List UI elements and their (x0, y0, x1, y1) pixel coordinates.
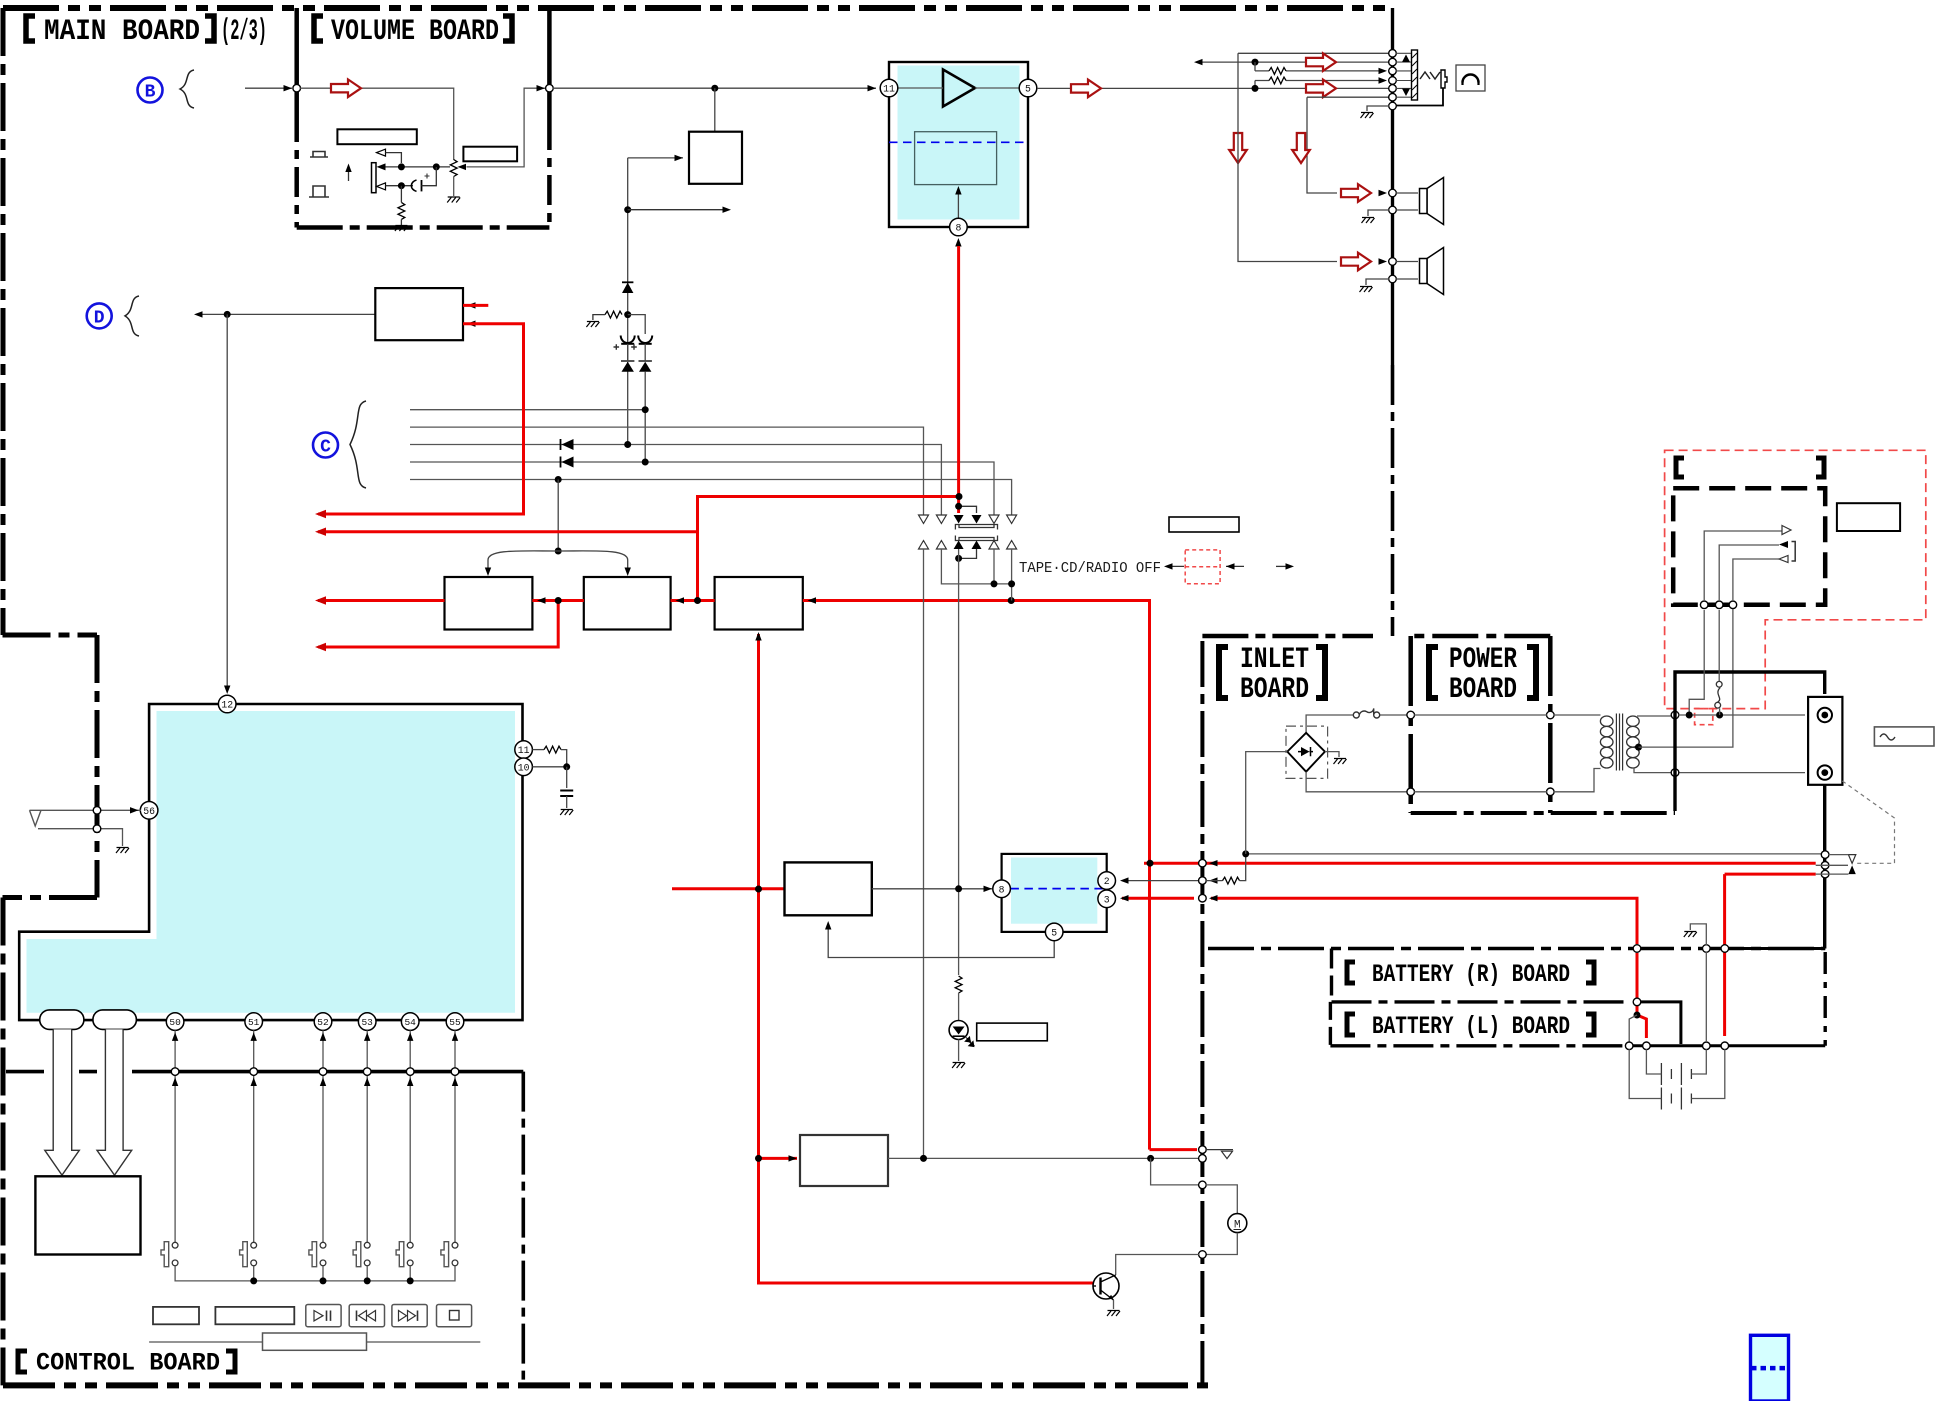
border circles for power wires (1199, 859, 1207, 867)
fuse F1 (1353, 708, 1379, 718)
inlet board top border (1202, 634, 1373, 639)
ground below cap (560, 810, 573, 816)
wire B input to volume board (245, 87, 292, 89)
blue dashed standby line (889, 141, 1026, 143)
red flow arrow to speaker2 (1341, 253, 1371, 271)
wire C3 (410, 445, 941, 516)
svg-text:BATTERY (R) BOARD: BATTERY (R) BOARD (1372, 960, 1570, 989)
red flow arrow on B wire (331, 79, 361, 97)
bridge diode glyph (1301, 747, 1310, 756)
tape direction arrow up (348, 167, 350, 181)
plain box right of dashed box (1837, 503, 1900, 531)
speaker2 symbol (1420, 248, 1444, 295)
speaker2 ground (1366, 279, 1389, 285)
svg-text:BOARD: BOARD (1240, 673, 1309, 707)
terminal block (1808, 697, 1842, 785)
antenna V symbol (30, 810, 42, 826)
key cap play/pause (306, 1305, 341, 1327)
LED indicator (949, 1021, 974, 1047)
oval connector 2 on IC bottom (93, 1010, 136, 1030)
mute box (689, 132, 742, 184)
jack contact strip hatched (1412, 50, 1418, 100)
tact switch S5 (396, 1242, 413, 1267)
wire red end to hourglass (1816, 855, 1849, 875)
motor M1 (1228, 1214, 1247, 1233)
bracket glyphs for BATTERY L BOARD (1347, 1014, 1594, 1035)
svg-text:53: 53 (361, 1017, 373, 1028)
transistor emitter ground (1113, 1300, 1115, 1309)
speaker1 ground (1368, 210, 1389, 216)
jack plug tip symbol (1420, 72, 1440, 79)
electrolytic cap 2 straight plate (639, 343, 652, 345)
electrolytic cap 1 straight plate (621, 343, 634, 345)
mode box 3 (715, 577, 803, 630)
wire volume board to amp pin 11 (553, 87, 876, 89)
speaker1 feed wire (1238, 53, 1337, 261)
wire cap to vertical junction (422, 167, 437, 186)
svg-text:56: 56 (143, 806, 155, 817)
bus junction dots (250, 1277, 257, 1284)
black dashed inner box (top right) (1673, 488, 1825, 605)
svg-text:INLET: INLET (1240, 643, 1309, 677)
arrow up into inner box (957, 190, 959, 218)
circle on R/L divider (1633, 998, 1641, 1006)
arrow up into box3 bottom (755, 632, 761, 641)
pin 11 resistor to cap (532, 749, 544, 751)
ground above battery R (1690, 924, 1706, 945)
diode D3 on right chain (639, 362, 651, 372)
border crossing circles on key wires (171, 1068, 179, 1076)
branch right to second cap chain (628, 315, 646, 334)
hollow bus arrow 2 to display box (97, 1029, 132, 1175)
pin 5 of power IC (1045, 923, 1063, 941)
servo box (785, 862, 872, 915)
wire C5 branch down to mode boxes (557, 480, 559, 552)
page symbol V+ right of circle (1206, 1150, 1233, 1159)
pin 5 (1019, 79, 1037, 97)
decoupling cap plates (566, 767, 568, 788)
bottom hook wire (959, 549, 977, 558)
speaker1 terminal wires (1396, 193, 1418, 210)
svg-text:5: 5 (1051, 927, 1057, 938)
red battery R center drop (1637, 953, 1646, 1038)
red battery R drop (1725, 874, 1816, 1036)
box label upper in volume board (337, 129, 416, 144)
tact switch S6 (441, 1242, 458, 1267)
wire into mute box left (628, 157, 683, 159)
diode on C4 (562, 457, 574, 468)
AC select circles on thick feed (1671, 711, 1679, 719)
wire jack pin5 from amp (1037, 87, 1389, 89)
main board top border (3, 5, 1393, 11)
svg-text:52: 52 (317, 1017, 329, 1028)
svg-text:D: D (94, 308, 105, 328)
electrolytic cap 1 curved plate (621, 336, 635, 344)
coupling capacitor curved plate (411, 180, 416, 191)
small empty label box above TAPE text (1169, 517, 1239, 532)
switch common verticals down (924, 549, 959, 1158)
battery R top border solid segment (1700, 947, 1825, 950)
battery R/L divider border (1332, 1000, 1631, 1003)
red stub into D box upper (463, 304, 488, 307)
diode D1 on vertical (cathode up) (622, 283, 633, 293)
right chain vertical wire (644, 344, 646, 462)
circles on battery feed wires (1821, 851, 1829, 859)
transformer secondary coil (1627, 716, 1640, 768)
system IC body L-shape (19, 704, 522, 1020)
resistor on pin2 feed (1206, 880, 1223, 882)
motor return wire (1206, 1233, 1237, 1255)
svg-text:10: 10 (518, 762, 530, 773)
main board right border lower segment (1200, 641, 1204, 1385)
selector wires into dashed box (1700, 601, 1708, 609)
wire jack pin6 down to speaker1 (1307, 97, 1389, 193)
red flow arrow down right (1292, 133, 1310, 163)
red feed hook to contact 4 (959, 506, 977, 513)
svg-text:VOLUME BOARD: VOLUME BOARD (331, 15, 499, 49)
wire junction down to IC pin 12 (226, 314, 228, 692)
jack plug sleeve (1441, 70, 1447, 88)
down triangle marker on strip (1402, 89, 1410, 97)
battery L bottom border solid segment (1628, 1044, 1825, 1047)
bridge rectifier BD1 diamond (1287, 733, 1325, 772)
blue dashed line inside (1010, 888, 1102, 890)
svg-text:2: 2 (1104, 876, 1110, 887)
svg-text:(2/3): (2/3) (221, 15, 267, 49)
head bottom wire (386, 185, 414, 187)
wire C1 (410, 409, 645, 411)
key cap blank 2 (215, 1307, 294, 1324)
wire C2 (410, 427, 924, 515)
key common bus (175, 1266, 455, 1281)
power board input circles (1407, 711, 1415, 719)
svg-text:BATTERY (L) BOARD: BATTERY (L) BOARD (1372, 1012, 1570, 1041)
wire to transistor collector (1116, 1255, 1199, 1276)
small power IC body (1002, 854, 1107, 932)
connector circle on volume board left edge (293, 84, 301, 92)
red wire from amp pin8 down (957, 246, 960, 513)
svg-text:11: 11 (518, 745, 530, 756)
jack sleeve wire to ground pin (1396, 88, 1443, 106)
bottom filled contacts (954, 541, 982, 550)
bridge DC output wire down-left (1246, 752, 1288, 854)
feedback wire from pin5 to servo box bottom (828, 926, 1054, 958)
lower antenna wire to ground (38, 829, 123, 846)
motor feed branch (1151, 1158, 1198, 1185)
wire C5 (410, 480, 1012, 516)
connector circle on volume board right edge (546, 84, 554, 92)
arrows up below border circles (172, 1078, 178, 1087)
border crossing circles on antenna wires (93, 807, 101, 815)
arrow right of red dotted box (1226, 565, 1244, 567)
brace after C (350, 401, 366, 488)
pins 50-55 on IC bottom (166, 1013, 464, 1031)
head top wire to pot (386, 166, 451, 168)
tact switch S1 (161, 1242, 178, 1267)
arrow far right (1276, 565, 1292, 567)
key matrix wires pins 50-55 down to switches (175, 1030, 455, 1242)
wire jack pin3 with resistor (1255, 70, 1383, 72)
switch bottom plate (955, 536, 997, 541)
main board left border with step (3, 8, 98, 1385)
selector jack bar (1792, 542, 1796, 562)
pin 11 right (515, 741, 533, 759)
battery R board left border (1330, 949, 1333, 1002)
small power IC cyan fill (1011, 858, 1097, 924)
wire into pin2 from resistor (1122, 880, 1198, 882)
pin 3 of power IC (1098, 890, 1116, 908)
diode D2 on left chain (622, 362, 634, 372)
svg-text:51: 51 (248, 1017, 260, 1028)
svg-text:8: 8 (955, 223, 961, 234)
branch arrow to the right (624, 206, 631, 213)
wire from monitor arrow to head top wire (386, 153, 402, 163)
link pin2 to pin3 wires (1254, 62, 1256, 88)
tape head icon upper (310, 152, 328, 158)
bridge ground wire (1325, 752, 1339, 757)
up triangle marker on strip (1402, 55, 1410, 63)
volume board right border (547, 8, 552, 120)
tact switch S2 (240, 1242, 257, 1267)
junction pin2 wire (1252, 59, 1259, 66)
svg-text:MAIN BOARD: MAIN BOARD (44, 15, 200, 49)
system IC cyan fill (27, 711, 516, 1013)
red flow arrow to speaker1 (1341, 184, 1371, 202)
long vertical mute control wire (627, 158, 629, 445)
key cap stop (437, 1305, 472, 1327)
headphone jack pin bus (thick vertical) (1391, 8, 1394, 365)
speaker1 terminals (1389, 189, 1397, 197)
bracket glyphs for MAIN BOARD (26, 16, 214, 41)
junction on head top wire (398, 163, 405, 170)
battery sense wire (1705, 952, 1707, 1042)
diode on C3 (562, 439, 574, 450)
red flow arrow amp out (1071, 80, 1101, 98)
pin 8 of power IC (993, 880, 1011, 898)
transformer T1 primary coil (1600, 716, 1613, 768)
battery B1 leads (1646, 1049, 1706, 1074)
svg-text:55: 55 (449, 1017, 461, 1028)
voltage selector switch squiggle (1716, 712, 1723, 719)
thick link divider to L bottom (1640, 1002, 1681, 1044)
volume pot resistor vertical (450, 160, 457, 177)
volume board bottom border (297, 225, 550, 230)
svg-text:8: 8 (999, 884, 1005, 895)
gray jog wire to L board (1629, 1015, 1637, 1042)
svg-text:50: 50 (169, 1017, 181, 1028)
control board right border (521, 1072, 525, 1386)
switch top plate (955, 525, 997, 530)
pin 2 of power IC (1098, 872, 1116, 890)
junction for bias network (624, 311, 631, 318)
jack connector pins (1389, 50, 1397, 58)
monitor arrow hollow upper (377, 149, 386, 156)
red branch to lower box (759, 1157, 798, 1160)
svg-text:POWER: POWER (1449, 643, 1517, 677)
resistor to ground left (605, 311, 622, 318)
wire jack pin2 output left arrow (1196, 61, 1389, 63)
terminal hole lower (1818, 765, 1832, 779)
wire jack pin1 from speaker line (1238, 52, 1389, 54)
mode box 1 (445, 577, 533, 630)
power board border (1411, 634, 1551, 639)
red rail right horizontal (to battery +) (1144, 862, 1816, 865)
amp triangle (943, 70, 975, 107)
LED label box (977, 1023, 1048, 1041)
brace after D (125, 296, 139, 336)
battery R board top border (1208, 947, 1825, 950)
junction on D wire (224, 311, 231, 318)
bracket glyphs for VOLUME BOARD (314, 16, 512, 41)
red wire to small IC pin3 (1122, 898, 1637, 944)
tact switch S3 (309, 1242, 326, 1267)
svg-text:CONTROL BOARD: CONTROL BOARD (36, 1349, 220, 1378)
tact switch S4 (353, 1242, 370, 1267)
volume slider track (149, 1341, 480, 1343)
node B circled letter (138, 78, 163, 103)
wiper wire to volume board output (467, 88, 546, 167)
coupling capacitor straight plate (421, 180, 423, 191)
red flow arrow into jack lower (1306, 80, 1336, 98)
red wire rail2 left arrow segment (318, 530, 698, 533)
pot bottom wire and ground (453, 177, 455, 197)
secondary top lead (1637, 715, 1671, 717)
red dotted selector box (1185, 550, 1220, 584)
svg-text:BOARD: BOARD (1449, 673, 1517, 707)
box label right in volume board (463, 147, 517, 162)
power amp IC U1 body (889, 62, 1028, 227)
battery boards right border (1823, 952, 1826, 1046)
thick wire terminal block down to battery (1823, 785, 1826, 949)
battery L board left border (1329, 1002, 1332, 1046)
motor wire down (1206, 1185, 1237, 1213)
red wire rail3 through mode boxes (318, 601, 1197, 1150)
bracket glyphs for unnamed board in red dashed area (1676, 458, 1824, 477)
pin 11 (880, 79, 898, 97)
red wire rail3 bottom corner (1148, 1144, 1151, 1150)
amp internal wire (898, 87, 1020, 89)
pin 12 (218, 695, 236, 713)
black arrowheads into mode boxes (537, 597, 546, 603)
battery L board bottom border (1330, 1044, 1628, 1047)
wire to pin 56 (30, 809, 142, 811)
bracket glyphs for BATTERY R BOARD (1347, 962, 1594, 983)
svg-text:3: 3 (1104, 894, 1110, 905)
ground pin wire and symbol (1367, 106, 1389, 111)
AC plug box (1874, 727, 1934, 746)
red dashed outline block (top right) (1665, 450, 1926, 708)
svg-text:C: C (320, 438, 331, 458)
main board right border upper segment (1391, 8, 1394, 365)
transformer core (1616, 714, 1622, 771)
bottom tie bus (941, 549, 1011, 601)
main board right border dash-dot middle segment (1391, 365, 1395, 636)
speaker1 symbol (1420, 178, 1444, 225)
wire secondary top to terminal (1678, 714, 1805, 716)
dotted link plug to selector (1842, 781, 1894, 863)
bracket glyphs for INLET BOARD (1219, 647, 1325, 698)
volume slider knob (263, 1333, 367, 1350)
split wire to box1 and box2 tops (488, 551, 628, 571)
red flow arrow down left (1229, 133, 1247, 163)
wire inside volume board to pot (300, 88, 454, 160)
wire junction down to mute box (714, 88, 716, 132)
junction above mute box (711, 85, 718, 92)
AC line wire with fuse (1306, 715, 1407, 736)
arrows up into pins 50-55 (172, 1032, 178, 1041)
transistor Q1 (1093, 1273, 1119, 1301)
mode box 2 (584, 577, 671, 630)
red junction dots (555, 597, 562, 604)
small red dashed box on wire (1695, 709, 1713, 725)
legend cyan box (1751, 1335, 1789, 1401)
bridge lower AC wire (1306, 772, 1407, 792)
selector wire arrows inside dashed box (1704, 531, 1782, 601)
pin 8 (950, 218, 968, 236)
wire C4 (410, 462, 994, 515)
circles on battery R top border (1633, 945, 1641, 953)
pin wires to contact strip (1396, 53, 1411, 97)
D source box (375, 288, 463, 340)
pin 56 (140, 802, 158, 820)
pin 10 wire (532, 766, 566, 768)
red branch to servo box (672, 887, 785, 890)
power amp IC cyan fill (898, 66, 1020, 220)
secondary bottom lead (1634, 768, 1805, 773)
lower control box (800, 1135, 888, 1186)
top contacts row (919, 515, 1017, 524)
arrow up into pin 8 (957, 240, 959, 248)
battery B2 leads (1629, 1049, 1725, 1098)
battery B1 (1661, 1063, 1691, 1085)
svg-text:B: B (145, 83, 156, 103)
wire servo box to small IC pin8 (872, 888, 992, 890)
ground below bias resistor (395, 226, 408, 232)
battery B2 (1661, 1088, 1691, 1110)
headphone icon box (1456, 65, 1485, 91)
key cap blank 1 (153, 1307, 199, 1324)
hollow bus arrow 1 to display box (45, 1029, 80, 1175)
circles on battery L bottom border (1625, 1042, 1633, 1050)
playback head bar (372, 163, 377, 193)
node D circled letter (87, 303, 112, 328)
power board bottom border (1411, 811, 1675, 815)
svg-text:12: 12 (221, 700, 233, 711)
arrowheads left of border circles (1209, 860, 1218, 866)
arrow into D box lower right (467, 321, 476, 327)
inner function box (915, 132, 997, 185)
voltage selector wire A (1689, 610, 1704, 715)
red arrowhead into pin3 (1120, 895, 1129, 901)
red flow arrow into jack (1306, 53, 1336, 71)
red wire rail2 riser and top run to amp pin8 (698, 497, 959, 601)
plus sign of capacitor (425, 174, 430, 179)
long supply wire from rectifier to battery (1246, 853, 1821, 855)
AC tilde glyph (1880, 734, 1895, 740)
electrolytic cap 2 curved plate (638, 336, 652, 344)
svg-text:54: 54 (404, 1017, 416, 1028)
svg-text:5: 5 (1025, 84, 1031, 95)
red wire D box lower to left arrow (318, 324, 524, 514)
top filled contacts (954, 515, 982, 524)
speaker2 terminals (1389, 258, 1397, 266)
red arrowheads on rail ends (315, 510, 326, 651)
display box (35, 1176, 140, 1254)
tape head icon lower (309, 186, 329, 197)
pin 10 right (515, 758, 533, 776)
wires to transformer primary (1554, 715, 1601, 792)
pot wiper arrow (458, 164, 467, 170)
